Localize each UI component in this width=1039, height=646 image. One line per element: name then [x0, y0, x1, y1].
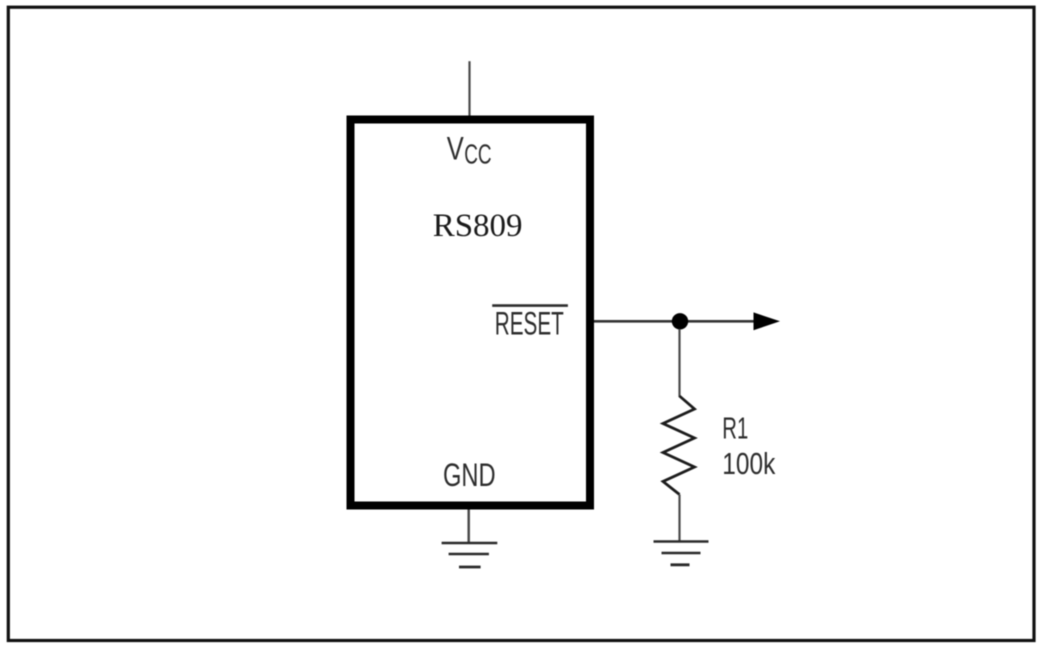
ground (below GND pin) — [442, 543, 498, 567]
wire junction to resistor — [678, 329, 680, 397]
svg-text:CC: CC — [464, 139, 491, 170]
pin label RESET (active low, overline) — [492, 305, 568, 341]
ic U1 RS809 box — [351, 120, 591, 506]
node junction dot — [672, 313, 688, 329]
svg-text:GND: GND — [443, 457, 496, 493]
svg-text:100k: 100k — [722, 446, 775, 481]
pin label VCC — [447, 131, 492, 170]
pin label GND — [443, 457, 496, 493]
arrowhead output — [754, 312, 781, 330]
svg-text:RESET: RESET — [495, 305, 564, 341]
svg-text:R1: R1 — [722, 411, 748, 446]
wire GND stub — [467, 510, 470, 543]
wire RESET output — [594, 320, 754, 323]
svg-text:RS809: RS809 — [433, 208, 523, 244]
svg-text:V: V — [447, 131, 465, 167]
label R1 100k — [722, 411, 775, 482]
wire resistor to ground — [678, 495, 680, 542]
resistor R1 zigzag — [663, 396, 695, 495]
wire VCC stub — [468, 61, 470, 116]
ground (below R1) — [654, 542, 709, 565]
ic name RS809 — [433, 208, 523, 244]
